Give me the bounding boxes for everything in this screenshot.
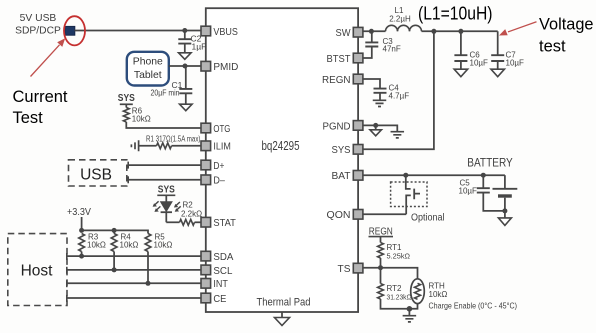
net SYS (R6 pullup) bbox=[118, 93, 135, 104]
label C3 value bbox=[383, 45, 401, 54]
svg-text:Test: Test bbox=[13, 109, 44, 127]
svg-text:VBUS: VBUS bbox=[213, 27, 238, 38]
svg-text:R2: R2 bbox=[183, 201, 194, 210]
wire SYS to switcher output bbox=[363, 31, 434, 149]
svg-text:REGN: REGN bbox=[322, 75, 351, 86]
resistor R6 bbox=[123, 104, 201, 128]
red arrow annotation (voltage test) bbox=[499, 22, 537, 36]
svg-text:31.23kΩ: 31.23kΩ bbox=[387, 293, 412, 302]
svg-text:(L1=10uH): (L1=10uH) bbox=[418, 3, 493, 23]
node PMID junction bbox=[183, 64, 188, 69]
svg-text:CE: CE bbox=[213, 294, 226, 305]
svg-text:SYS: SYS bbox=[332, 145, 351, 156]
pin PMID (left) bbox=[201, 61, 238, 73]
wire VBUS input bbox=[75, 30, 201, 32]
svg-text:Phone: Phone bbox=[133, 57, 163, 68]
label C5 value bbox=[459, 187, 478, 196]
IC thermal pad label bbox=[257, 297, 311, 309]
svg-text:TS: TS bbox=[338, 264, 351, 275]
label (L1=10uH) bbox=[418, 3, 493, 23]
wire TS to RTH bbox=[381, 268, 418, 279]
svg-text:2.2µH: 2.2µH bbox=[389, 15, 411, 24]
pin D- (left) bbox=[201, 175, 225, 187]
wire SDA bbox=[67, 253, 201, 260]
svg-text:QON: QON bbox=[327, 210, 351, 221]
svg-text:Charge Enable (0°C - 45°C): Charge Enable (0°C - 45°C) bbox=[429, 301, 518, 311]
node R4-SCL bbox=[112, 267, 117, 272]
node R3-SDA bbox=[79, 254, 84, 259]
label R1 value bbox=[146, 134, 201, 143]
capacitor C1 bbox=[179, 66, 192, 104]
label R6 bbox=[132, 107, 143, 116]
svg-text:SW: SW bbox=[336, 28, 351, 39]
svg-text:STAT: STAT bbox=[213, 218, 236, 229]
test point (blue square) bbox=[65, 26, 75, 35]
svg-text:10kΩ: 10kΩ bbox=[87, 241, 106, 250]
svg-text:20µF min: 20µF min bbox=[151, 88, 180, 98]
capacitor C5 bbox=[477, 175, 505, 211]
wire D- bbox=[128, 176, 201, 183]
label BATTERY bbox=[467, 156, 513, 170]
svg-text:BAT: BAT bbox=[332, 171, 352, 182]
label R5 bbox=[155, 233, 166, 242]
node BAT-QON bbox=[403, 173, 408, 178]
pin BAT (right) bbox=[332, 171, 363, 183]
svg-text:SDA: SDA bbox=[213, 252, 233, 263]
svg-text:10kΩ: 10kΩ bbox=[154, 241, 173, 250]
label R2 bbox=[183, 201, 194, 210]
svg-text:10µF: 10µF bbox=[470, 59, 489, 68]
label R3 value bbox=[87, 241, 106, 250]
pin D+ (left) bbox=[201, 160, 224, 172]
svg-text:1µF: 1µF bbox=[192, 42, 207, 52]
node battery gnd bbox=[502, 208, 507, 213]
wire BAT bbox=[363, 174, 505, 176]
label C1 value bbox=[151, 88, 180, 98]
label RT2 value bbox=[387, 293, 412, 302]
label Optional bbox=[411, 213, 445, 224]
resistor R4 bbox=[111, 230, 117, 270]
resistor R1 bbox=[139, 143, 201, 149]
ground (C7) bbox=[491, 69, 505, 77]
ground (C1) bbox=[180, 104, 193, 111]
svg-text:BTST: BTST bbox=[327, 54, 352, 65]
pin SYS (right) bbox=[332, 145, 363, 157]
label test bbox=[539, 38, 566, 56]
resistor RT1 bbox=[378, 237, 384, 268]
pin REGN (right) bbox=[322, 74, 363, 86]
wire PMID bbox=[169, 65, 201, 67]
label R4 bbox=[121, 233, 132, 242]
block Optional (dashed) bbox=[391, 182, 427, 207]
ground (C4) bbox=[373, 100, 387, 106]
label L1 bbox=[395, 6, 404, 15]
svg-text:4.7µF: 4.7µF bbox=[389, 92, 410, 101]
net REGN bbox=[369, 227, 394, 238]
node TS bbox=[378, 265, 383, 270]
pin BTST (right) bbox=[327, 53, 363, 65]
resistor R5 bbox=[145, 234, 151, 284]
svg-text:OTG: OTG bbox=[213, 124, 230, 135]
block Phone/Tablet bbox=[127, 52, 169, 86]
ground (PGND bars) bbox=[391, 132, 405, 138]
wire SW to L1 bbox=[363, 30, 386, 32]
label Voltage bbox=[539, 16, 594, 34]
IC U1 part number label bbox=[262, 139, 300, 153]
resistor R2 bbox=[166, 219, 201, 225]
capacitor C6 bbox=[454, 31, 467, 69]
pin SW (right) bbox=[336, 27, 363, 39]
label RT1 bbox=[387, 243, 403, 252]
wire QON bbox=[363, 213, 406, 215]
label R5 value bbox=[154, 241, 173, 250]
svg-text:5V USB: 5V USB bbox=[20, 13, 57, 24]
svg-text:INT: INT bbox=[213, 279, 228, 290]
pin INT (left) bbox=[201, 279, 229, 291]
label RTH bbox=[429, 282, 446, 291]
node PGND bbox=[373, 123, 378, 128]
capacitor C4 bbox=[363, 79, 387, 100]
svg-text:PGND: PGND bbox=[323, 121, 351, 132]
red circle annotation (current test) bbox=[64, 16, 85, 45]
svg-text:10kΩ: 10kΩ bbox=[120, 241, 139, 250]
label C6 value bbox=[470, 59, 489, 68]
svg-text:SYS: SYS bbox=[118, 93, 135, 104]
red arrow annotation (current test) bbox=[31, 38, 66, 76]
svg-text:+3.3V: +3.3V bbox=[67, 207, 91, 218]
ground (PGND chevron) bbox=[370, 125, 382, 135]
thermistor RTH bbox=[409, 279, 424, 309]
svg-text:10µF: 10µF bbox=[506, 59, 525, 68]
capacitor C7 bbox=[491, 31, 504, 69]
ground (battery) bbox=[498, 211, 511, 226]
pin TS (right) bbox=[338, 263, 363, 275]
label L1 value bbox=[389, 15, 411, 24]
wire PGND bbox=[363, 125, 397, 131]
label 5V USB bbox=[20, 13, 57, 24]
battery BT1 bbox=[493, 175, 518, 211]
svg-text:Tablet: Tablet bbox=[134, 70, 162, 81]
wire CE bbox=[67, 295, 201, 302]
label Charge Enable bbox=[429, 301, 518, 311]
pin VBUS (left) bbox=[201, 26, 238, 38]
ground (C2) bbox=[179, 53, 192, 60]
label C5 bbox=[460, 179, 471, 188]
node RT2-RTH-gnd bbox=[407, 306, 413, 312]
ground (R1, rotated) bbox=[131, 140, 138, 151]
node L1 out / SYS bbox=[431, 29, 436, 34]
node rail-R4 bbox=[112, 228, 117, 233]
svg-text:Voltage: Voltage bbox=[539, 16, 594, 34]
pin OTG (left) bbox=[201, 123, 230, 135]
pushbutton S1 bbox=[406, 175, 420, 214]
svg-text:D–: D– bbox=[213, 176, 225, 187]
wire D+ bbox=[128, 162, 201, 169]
node C6 tap bbox=[458, 29, 463, 34]
label C3 bbox=[383, 37, 394, 46]
capacitor C2 bbox=[178, 31, 191, 53]
wire TS bbox=[363, 267, 381, 269]
svg-text:2.2kΩ: 2.2kΩ bbox=[181, 210, 202, 219]
ground (thermal pad) bbox=[275, 312, 290, 326]
svg-text:Optional: Optional bbox=[411, 213, 445, 224]
label C7 bbox=[506, 51, 517, 60]
svg-text:10kΩ: 10kΩ bbox=[429, 290, 448, 299]
svg-text:Host: Host bbox=[21, 262, 54, 279]
svg-text:R1 317Ω(1.5A max): R1 317Ω(1.5A max) bbox=[146, 134, 201, 143]
block Host bbox=[8, 234, 67, 306]
net SYS (LED) bbox=[157, 184, 175, 195]
label C6 bbox=[470, 51, 481, 60]
label RTH value bbox=[429, 290, 448, 299]
wire INT bbox=[67, 280, 201, 287]
svg-text:5.25kΩ: 5.25kΩ bbox=[387, 252, 411, 261]
capacitor C3 bbox=[363, 31, 378, 58]
block USB bbox=[69, 160, 127, 186]
IC U1 bq24295 body bbox=[206, 8, 358, 312]
node rail-R3 bbox=[79, 228, 84, 233]
label Current bbox=[13, 88, 68, 106]
label C4 bbox=[389, 84, 400, 93]
resistor RT2 bbox=[378, 268, 410, 309]
label RT1 value bbox=[387, 252, 411, 261]
svg-text:Thermal Pad: Thermal Pad bbox=[257, 297, 311, 309]
label R2 value bbox=[181, 210, 202, 219]
node SW-C3 bbox=[369, 29, 374, 34]
svg-text:BATTERY: BATTERY bbox=[467, 156, 513, 170]
label SDP/DCP bbox=[15, 26, 61, 37]
LED D1 bbox=[161, 195, 172, 222]
label C2 value bbox=[192, 42, 207, 52]
svg-text:test: test bbox=[539, 38, 566, 56]
svg-text:PMID: PMID bbox=[213, 62, 238, 73]
pin STAT (left) bbox=[201, 217, 237, 229]
label R4 value bbox=[120, 241, 139, 250]
ground (C6) bbox=[454, 69, 468, 77]
label C7 value bbox=[506, 59, 525, 68]
svg-text:SDP/DCP: SDP/DCP bbox=[15, 26, 61, 37]
svg-text:10kΩ: 10kΩ bbox=[132, 115, 151, 124]
label RT2 bbox=[387, 284, 403, 293]
pin ILIM (left) bbox=[201, 141, 231, 153]
pin QON (right) bbox=[327, 210, 363, 222]
label R6 value bbox=[132, 115, 151, 124]
svg-text:SYS: SYS bbox=[158, 184, 175, 195]
node VBUS junction bbox=[182, 28, 187, 33]
wire SCL bbox=[67, 267, 201, 274]
node BAT-C5 bbox=[481, 173, 486, 178]
wire L1 to output node bbox=[422, 30, 498, 32]
svg-text:USB: USB bbox=[80, 167, 112, 184]
svg-text:bq24295: bq24295 bbox=[262, 139, 300, 153]
wire +3.3V rail bbox=[82, 217, 148, 234]
label R3 bbox=[88, 233, 99, 242]
svg-text:47nF: 47nF bbox=[383, 45, 401, 54]
pin SCL (left) bbox=[201, 265, 233, 277]
label C2 bbox=[191, 34, 202, 44]
label Test bbox=[13, 109, 44, 127]
inductor L1 bbox=[386, 25, 422, 31]
LED arrows bbox=[153, 201, 181, 212]
svg-text:Current: Current bbox=[13, 88, 68, 106]
svg-text:D+: D+ bbox=[213, 161, 224, 172]
label C1 bbox=[172, 80, 183, 90]
resistor R3 bbox=[79, 234, 85, 257]
pin SDA (left) bbox=[201, 251, 234, 263]
svg-text:10µF: 10µF bbox=[459, 187, 478, 196]
svg-text:ILIM: ILIM bbox=[213, 142, 231, 153]
net +3.3V bbox=[67, 207, 91, 218]
ground (TS divider) bbox=[403, 309, 417, 322]
pin CE (left) bbox=[201, 293, 227, 305]
label C4 value bbox=[389, 92, 410, 101]
node R5-INT bbox=[146, 281, 151, 286]
pin PGND (right) bbox=[323, 121, 363, 133]
svg-text:SCL: SCL bbox=[213, 266, 232, 277]
